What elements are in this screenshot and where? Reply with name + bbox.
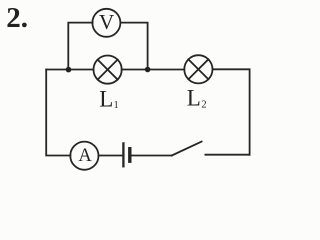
lamp L1 [94, 56, 122, 84]
svg-text:1: 1 [114, 100, 119, 111]
wire L2 to right edge and down [213, 69, 250, 154]
wire ammeter to battery [99, 155, 123, 157]
voltmeter V [92, 9, 120, 37]
svg-text:2.: 2. [6, 2, 28, 34]
lamp L2 [184, 55, 212, 83]
wire top right and down to right junction [120, 23, 147, 70]
svg-text:2: 2 [201, 100, 206, 111]
svg-text:V: V [99, 10, 114, 34]
node junction left [66, 67, 72, 73]
ammeter A [70, 142, 98, 170]
switch S lever [172, 142, 202, 156]
wire between L1 and L2 [122, 69, 185, 71]
battery cell long plate [122, 143, 124, 166]
node junction right [145, 67, 151, 73]
wire bottom right to switch fixed contact [205, 154, 249, 156]
svg-text:L: L [187, 86, 201, 111]
battery cell short plate [128, 149, 131, 162]
svg-text:A: A [78, 146, 92, 166]
wire battery to switch pivot [132, 155, 172, 157]
svg-text:L: L [99, 87, 113, 112]
wire middle left segment [46, 69, 93, 71]
wire left vertical and bottom to ammeter [46, 70, 70, 156]
wire left riser junction to top [68, 23, 92, 70]
